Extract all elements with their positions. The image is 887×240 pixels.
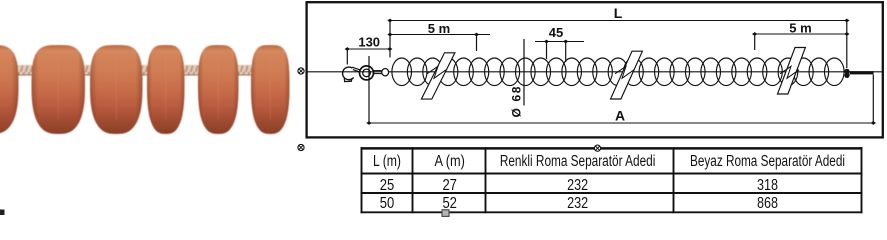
svg-text:27: 27 <box>442 177 457 194</box>
svg-text:45: 45 <box>549 25 563 40</box>
svg-text:868: 868 <box>757 195 778 212</box>
svg-text:Beyaz Roma Separatör Adedi: Beyaz Roma Separatör Adedi <box>690 153 845 170</box>
svg-text:L (m): L (m) <box>373 153 401 170</box>
svg-text:130: 130 <box>358 34 380 49</box>
svg-text:25: 25 <box>380 177 395 194</box>
svg-text:Renkli Roma Separatör Adedi: Renkli Roma Separatör Adedi <box>500 153 656 170</box>
svg-text:A (m): A (m) <box>434 153 465 170</box>
svg-text:50: 50 <box>380 195 395 212</box>
svg-text:318: 318 <box>757 177 778 194</box>
svg-text:5 m: 5 m <box>789 21 811 36</box>
svg-text:Ø 68: Ø 68 <box>509 86 523 117</box>
svg-text:L: L <box>614 5 623 21</box>
svg-text:A: A <box>615 107 625 123</box>
svg-text:232: 232 <box>567 177 588 194</box>
svg-text:232: 232 <box>567 195 588 212</box>
svg-text:5 m: 5 m <box>428 21 450 36</box>
